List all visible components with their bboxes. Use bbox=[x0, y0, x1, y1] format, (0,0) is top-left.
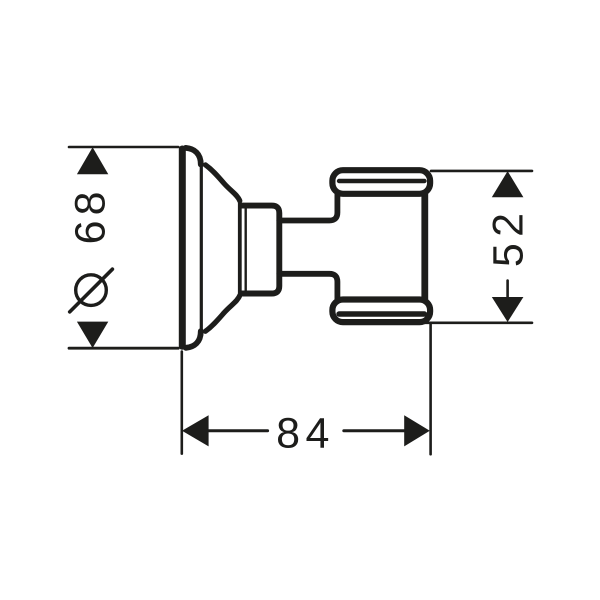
body right edge bbox=[421, 194, 428, 300]
escutcheon lip profile line bbox=[200, 163, 203, 334]
escutcheon bell curve silhouette bottom bbox=[205, 295, 239, 331]
svg-text:4: 4 bbox=[305, 409, 329, 457]
stem upper line into body bbox=[279, 194, 337, 221]
escutcheon bell curve silhouette bbox=[205, 165, 239, 201]
dim O68 top extension line bbox=[69, 146, 178, 149]
bottom cap inner line bbox=[339, 311, 425, 316]
svg-text:6: 6 bbox=[67, 220, 115, 244]
dim 52 bottom arrow bbox=[492, 297, 524, 322]
dim 84 line right stub bbox=[344, 429, 405, 432]
dim 52 bottom extension line bbox=[424, 321, 532, 324]
dim 84 left arrow bbox=[182, 415, 209, 446]
dim 84 left extension line bbox=[181, 352, 184, 454]
dim 84 line left stub bbox=[208, 429, 268, 432]
dim 52 top extension line bbox=[431, 170, 532, 173]
svg-text:8: 8 bbox=[67, 191, 115, 215]
dim label O 68 : diameter symbol circle bbox=[76, 275, 107, 306]
top cap outline bbox=[332, 170, 430, 194]
svg-text:5: 5 bbox=[484, 243, 532, 267]
escutcheon neck collar bbox=[241, 206, 279, 294]
dim 84 right arrow bbox=[404, 415, 430, 446]
escutcheon base edge (wall plate rim) bbox=[179, 149, 186, 346]
dim O68 bottom extension line bbox=[69, 347, 178, 350]
dim 52 top arrow bbox=[492, 171, 524, 197]
svg-text:2: 2 bbox=[484, 213, 532, 237]
dim 52 line stub below label bbox=[506, 281, 509, 298]
escutcheon lip bottom arc bbox=[186, 331, 201, 348]
dim O68 bottom arrow bbox=[77, 322, 108, 348]
escutcheon lip top arc bbox=[186, 148, 201, 165]
escutcheon neck junction line bbox=[244, 208, 246, 292]
escutcheon cone end vertical line bbox=[238, 200, 242, 297]
top cap inner line bbox=[339, 179, 425, 183]
bottom cap outline bbox=[332, 300, 430, 323]
svg-text:8: 8 bbox=[276, 409, 300, 457]
stem lower line into body bbox=[279, 274, 337, 300]
dim O68 top arrow bbox=[77, 147, 108, 174]
dim 84 right extension line bbox=[429, 324, 432, 455]
dim label O 68 : diameter symbol slash bbox=[70, 269, 113, 312]
